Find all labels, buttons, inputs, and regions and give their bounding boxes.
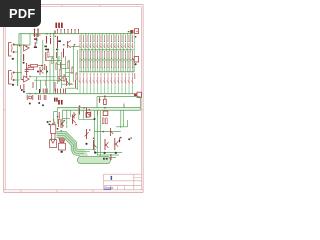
stub [97,73,99,76]
wire [119,50,121,72]
stub [118,73,120,76]
resistor R4 [31,64,38,67]
resistor RB15 [128,52,130,58]
stub [121,73,123,76]
resistor RB16 [132,52,134,58]
stub [79,73,81,76]
transistor Q3 [68,41,71,49]
resistor RB6 [97,52,99,58]
wire [86,58,88,60]
wire [79,84,81,93]
transistor QB13 [121,76,123,83]
node [29,93,30,94]
wire [79,119,95,121]
node [102,131,104,133]
wire [54,79,66,81]
wire [79,71,134,73]
wire [18,34,20,45]
ground [135,36,137,38]
label [34,38,37,40]
wire [58,56,60,62]
resistor [65,89,67,94]
wire [48,56,54,58]
ground [94,118,96,120]
wire [126,50,128,72]
wire [100,67,102,71]
transistor QB15 [128,76,130,83]
transistor QA16 [132,43,134,48]
wire [97,84,99,93]
wire [114,84,116,93]
wire [116,126,128,128]
resistor R27 [106,118,108,124]
wire [26,93,134,95]
wire [86,67,88,71]
transistor QB14 [125,76,127,83]
transistor QB16 [132,76,134,83]
wire [100,84,102,93]
resistor RA14 [125,35,127,41]
wire [90,67,92,71]
node [55,36,56,37]
resistor RC15 [128,62,130,67]
resistor RB10 [111,52,113,58]
wire [34,79,56,81]
op-amp U1B [24,76,30,82]
label [45,49,49,51]
crystal Y1 [29,96,32,99]
transistor QB10 [111,76,113,83]
resistor [63,76,65,81]
transistor Q12 [104,139,106,150]
wire [104,67,106,71]
node [63,120,65,122]
resistor R15 [60,62,62,68]
transistor QB6 [97,76,99,83]
wire [79,67,81,71]
resistor R31 [51,125,56,134]
wire [125,67,127,71]
resistor R11 [57,36,59,48]
node [70,83,71,84]
wire [84,34,86,50]
wire [133,50,135,72]
stub [134,73,136,79]
wire [15,79,20,81]
ground [29,103,31,105]
node [49,121,51,123]
wire [97,96,140,98]
ground [38,102,40,104]
node [50,33,52,35]
wire [118,67,120,71]
resistor [44,89,46,94]
node [64,74,65,75]
wire [97,110,119,155]
wire [83,110,85,119]
connector X1 [135,29,139,34]
resistor R23 [93,140,95,150]
wire [79,58,81,60]
node [104,107,106,109]
transistor QA7 [100,43,102,48]
resistor R16 [63,49,65,58]
connector J1 [9,43,13,57]
resistor R10 [50,38,52,44]
wire [128,58,130,60]
transducer LS2 [59,137,66,143]
resistor [60,89,62,94]
stub [132,73,134,76]
wire [62,118,70,120]
resistor [55,64,57,69]
node [48,50,49,51]
resistor RC16 [132,62,134,67]
wire [132,84,134,93]
resistor RA9 [107,35,109,41]
wire [94,110,122,152]
transistor QA13 [121,43,123,48]
transistor Q14 [110,128,112,136]
wire [98,50,100,72]
wire [58,76,70,78]
wire [65,56,67,80]
resistor RA3 [86,35,88,41]
pin 2 of J1 [13,51,15,53]
node [46,33,48,35]
wire [107,67,109,71]
wire [93,67,95,71]
wire [125,58,127,60]
wire [119,34,121,50]
resistor R6 [28,67,34,69]
transistor QA3 [86,43,88,48]
resistor RA4 [90,35,92,41]
wire [90,84,92,93]
wire [36,34,38,44]
wire [46,60,62,62]
transistor QB11 [114,76,116,83]
resistor [63,89,65,94]
wire [15,72,23,74]
node [63,44,65,46]
resistor RB13 [121,52,123,58]
wire [126,34,128,50]
ground [46,71,48,73]
wire [81,50,83,72]
capacitor C2 [26,63,28,75]
bus B2 [78,156,111,163]
resistor RC9 [107,62,109,67]
node [51,138,53,140]
bus B1 [57,135,85,158]
ground [23,62,25,64]
transistor QA8 [104,43,106,48]
frame outer border [4,5,144,193]
resistor RB1 [79,52,81,58]
stub [123,104,125,108]
resistor RC13 [121,62,123,67]
capacitor C3 [43,95,45,100]
ground [85,143,87,145]
transistor QA11 [114,43,116,48]
resistor RC12 [118,62,120,67]
stub [86,73,88,76]
node out U1A [26,46,28,48]
wire [125,84,127,93]
pin [136,31,137,32]
resistor RA8 [104,35,106,41]
wire [15,44,20,46]
ground [135,63,137,65]
wire [57,48,59,84]
resistor RA16 [132,35,134,41]
ic U3 [103,111,108,116]
node [128,31,129,32]
resistor R19 [38,95,40,100]
wire [114,58,116,60]
resistor RB9 [107,52,109,58]
ground [37,71,39,73]
transistor QB12 [118,76,120,83]
transistor Q9 [72,115,74,125]
wire [69,60,71,86]
node [60,68,61,69]
resistor [57,89,59,94]
wire [71,46,80,48]
node [68,60,69,61]
node [57,116,59,118]
wire [62,109,140,111]
wire [97,67,99,71]
wire [83,67,85,71]
resistor RB12 [118,52,120,58]
connector X3 [137,92,141,97]
pin [60,30,62,34]
resistor R12 [45,52,47,61]
ground [42,104,44,106]
node [36,39,38,41]
capacitor C4 [26,95,28,100]
resistor RB8 [104,52,106,58]
transistor QB7 [100,76,102,83]
transistor Q8 [60,119,62,128]
node [29,76,31,78]
wire [66,110,68,128]
connector X2 [134,57,138,62]
node [120,137,122,139]
resistor R14 [56,52,58,58]
resistor RB14 [125,52,127,58]
resistor R1 [23,54,25,61]
ground [94,152,96,154]
wire [116,34,118,50]
node [34,29,36,31]
wire [61,110,63,128]
diode D17 [130,30,133,33]
node [62,77,63,78]
resistor RB3 [86,52,88,58]
bus B1 edges [57,132,97,156]
resistor RA5 [93,35,95,41]
transistor QA9 [107,43,109,48]
wire [93,58,95,60]
transistor Q2 [46,66,48,74]
resistor RB11 [114,52,116,58]
wire [100,110,116,157]
wire [111,84,113,93]
wire [130,34,132,42]
PDF badge [0,0,41,27]
stub [125,73,127,76]
wire [53,70,55,94]
wire [66,87,78,89]
node [35,93,36,94]
wire [127,120,129,127]
wire [112,50,114,72]
wire [61,52,63,88]
resistor R8 [45,80,47,86]
wire [78,108,80,120]
resistor RA11 [114,35,116,41]
node [52,56,53,57]
pin [132,58,134,60]
node [83,107,85,109]
wire [100,58,102,60]
transistor Q4 [58,76,60,82]
wire [95,50,97,72]
wire [133,34,135,50]
resistor RC6 [97,62,99,67]
ground [60,130,62,132]
ground [128,138,130,140]
wire [70,110,72,117]
node [93,138,95,140]
node [56,62,57,63]
frame tick marks [4,5,143,193]
transistor Q1 [40,67,44,75]
wire [14,44,30,46]
resistor RA15 [128,35,130,41]
wire [105,50,107,72]
transistor QA15 [128,43,130,48]
resistor [47,52,49,57]
wire [66,72,74,74]
pin [67,30,69,34]
wire [105,34,107,50]
stub [111,73,113,76]
transistor Q6 [73,112,75,119]
node [72,66,73,67]
resistor RB5 [93,52,95,58]
wire [107,58,109,60]
wire [86,84,88,93]
stub [114,73,116,76]
wire [111,67,113,71]
wire [83,58,85,60]
wire [123,50,125,72]
wire [132,67,134,71]
wire [114,67,116,71]
wire [139,97,141,110]
wire [93,84,95,93]
wire [122,110,124,127]
transistor QA1 [79,43,81,48]
transistor QB1 [79,76,81,83]
wire [54,111,58,113]
resistor R2 [34,30,36,37]
resistor RA6 [97,35,99,41]
wire [58,64,66,66]
transistor QB3 [86,76,88,83]
wire [17,73,19,87]
wire [62,68,70,70]
resistor RC8 [104,62,106,67]
wire [94,131,121,133]
ground [12,58,14,60]
node [53,119,54,120]
node [89,109,91,111]
wire [121,84,123,93]
transistor Q5 [66,78,68,86]
label [56,49,58,51]
resistor R24 [119,138,121,143]
transducer LS1 [50,133,57,147]
jumper JP1 [55,23,57,28]
stub [107,73,109,76]
resistor R3 [37,30,39,37]
resistor R25 [58,112,60,120]
node [73,46,75,48]
resistor [46,89,48,94]
resistor RC2 [83,62,85,67]
node [28,65,30,67]
label [44,46,47,48]
resistor R9 [46,36,48,44]
pin 1 of J1 [13,44,15,46]
wire [84,50,86,72]
transistor QA10 [111,43,113,48]
wire [20,34,22,80]
ic U2 [86,112,90,117]
wire [128,31,131,33]
resistor RA7 [100,35,102,41]
wire [33,34,41,36]
resistor RB7 [100,52,102,58]
wire [128,67,130,71]
wire [62,83,74,85]
stub [93,73,95,76]
wire [109,34,111,50]
node [53,33,55,35]
resistor RA2 [83,35,85,41]
wire [132,58,134,60]
wire [30,76,56,78]
wire [116,50,118,72]
resistor RA12 [118,35,120,41]
resistor RA1 [79,35,81,41]
resistor [42,89,44,94]
label [54,98,56,102]
node [54,138,56,140]
node [37,29,39,31]
transistor QB5 [93,76,95,83]
wire [133,60,135,72]
title block underline [104,188,111,191]
resistor R17 [54,82,56,91]
pin [64,30,66,34]
node [52,123,54,125]
